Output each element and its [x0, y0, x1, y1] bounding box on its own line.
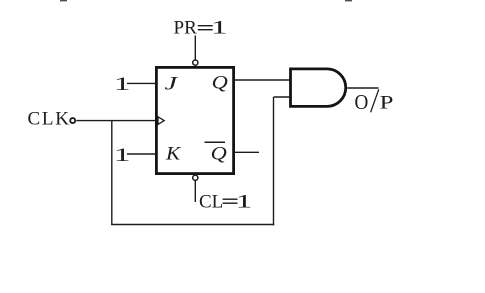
- wire CLK branch vertical (down to feedback): [111, 121, 113, 225]
- svg-text:1: 1: [114, 145, 131, 166]
- wire CLK horizontal: [76, 120, 156, 122]
- flip-flop U1 (JK flip-flop body): [156, 67, 233, 173]
- CLK input terminal circle: [70, 118, 75, 123]
- svg-text:O: O: [355, 90, 369, 114]
- svg-text:PR: PR: [174, 18, 198, 39]
- wire Q output to AND input A: [234, 79, 290, 81]
- wire AND input B horizontal: [274, 96, 291, 98]
- wire feedback bottom horizontal: [111, 224, 274, 226]
- svg-text:1: 1: [211, 18, 228, 39]
- clock edge-trigger triangle: [158, 117, 164, 125]
- wire feedback right vertical (up to AND input B): [273, 97, 275, 225]
- svg-text:Q: Q: [212, 73, 229, 94]
- label CL=1: [199, 192, 252, 213]
- CL bubble (active-low clear pin): [193, 175, 198, 180]
- svg-text:1: 1: [236, 192, 253, 213]
- svg-text:1: 1: [114, 74, 131, 95]
- svg-text:CLK: CLK: [28, 109, 70, 130]
- svg-text:CL: CL: [199, 192, 223, 213]
- AND gate G1: [291, 69, 346, 107]
- stray mark top-left (cropped text remnant): [60, 0, 67, 1]
- PR bubble (active-low preset pin): [193, 60, 198, 65]
- stray mark top-right (cropped text remnant): [345, 0, 352, 1]
- label PR=1: [174, 18, 228, 39]
- wire J input: [127, 82, 156, 84]
- overline of Qbar: [205, 141, 226, 143]
- svg-text:K: K: [165, 144, 182, 165]
- svg-text:P: P: [380, 93, 394, 114]
- wire CL vertical: [194, 181, 196, 202]
- wire Qbar stub: [234, 151, 259, 153]
- wire AND output: [347, 87, 378, 89]
- label O/P: [355, 89, 394, 114]
- svg-text:Q: Q: [211, 144, 228, 165]
- wire PR vertical: [194, 36, 196, 60]
- wire K input: [127, 153, 156, 155]
